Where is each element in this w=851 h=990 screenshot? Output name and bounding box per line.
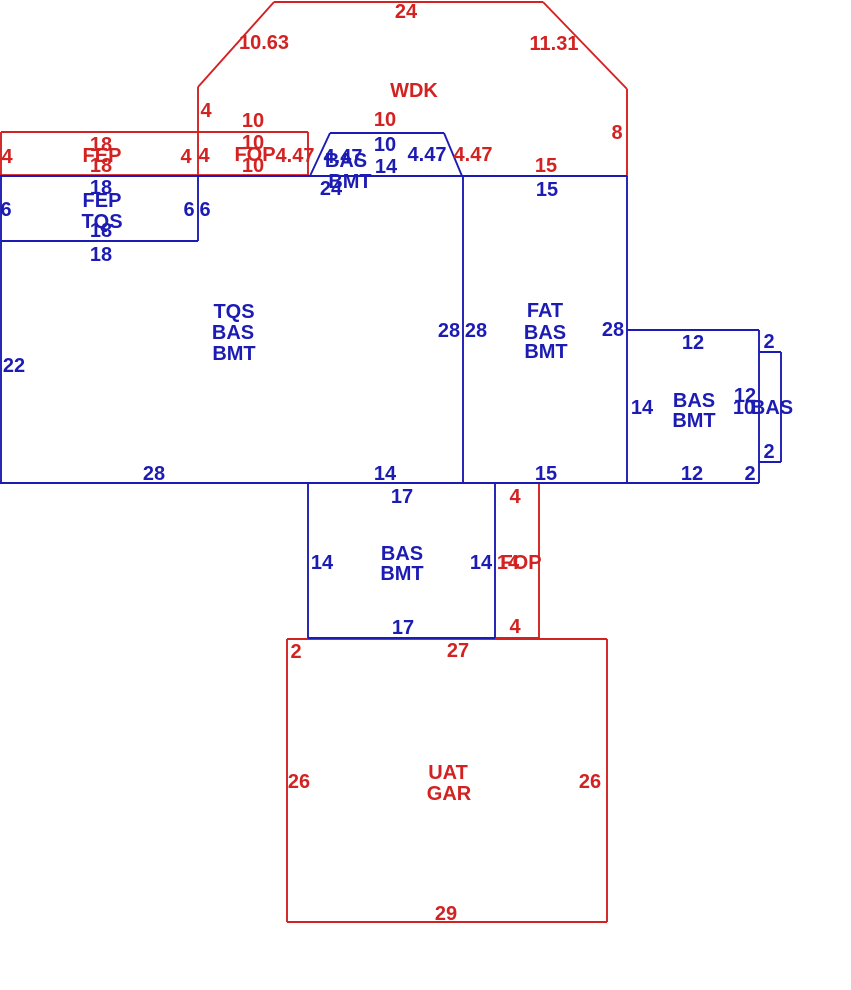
svg-text:4.47: 4.47 [408,144,447,166]
svg-text:BMT: BMT [380,563,423,585]
blue lower BAS BMT box left edge 14 [307,483,309,638]
blue BAS BMT trapezoid right slope 4.47 [444,133,462,176]
svg-text:4: 4 [198,145,210,167]
svg-text:10: 10 [242,110,264,132]
blue small BAS box right edge 10 [780,352,782,462]
svg-text:FEP: FEP [83,190,122,212]
blue main bottom line y483 [0,482,759,484]
svg-text:10.63: 10.63 [239,32,289,54]
svg-text:6: 6 [0,199,11,221]
svg-text:2: 2 [744,463,755,485]
svg-text:28: 28 [438,320,460,342]
svg-text:GAR: GAR [427,783,472,805]
svg-text:17: 17 [391,486,413,508]
svg-text:UAT: UAT [428,762,468,784]
svg-text:BMT: BMT [672,410,715,432]
svg-text:18: 18 [90,155,112,177]
blue lower BAS BMT box bottom edge 17 [308,637,495,639]
blue notch vertical 6 [197,176,199,241]
svg-text:4: 4 [180,146,192,168]
svg-text:26: 26 [288,771,310,793]
svg-text:15: 15 [536,179,558,201]
svg-text:FAT: FAT [527,300,563,322]
red WDK deck right slope 11.31 [543,2,627,89]
svg-text:14: 14 [375,156,398,178]
svg-text:4: 4 [509,616,521,638]
svg-text:14: 14 [631,397,654,419]
red WDK deck top edge 24 [274,1,543,3]
blue BAS BMT trapezoid left slope 4.47 [310,133,330,176]
svg-text:WDK: WDK [390,80,438,102]
svg-text:10: 10 [374,134,396,156]
svg-text:4: 4 [200,100,212,122]
svg-text:BMT: BMT [212,343,255,365]
red FEP left edge [0,132,2,175]
svg-text:4: 4 [1,146,13,168]
svg-text:2: 2 [763,441,774,463]
svg-text:BAS: BAS [381,543,423,565]
svg-text:BAS: BAS [673,390,715,412]
red lower FOP strip bottom edge [495,637,539,639]
svg-text:BAS: BAS [751,397,793,419]
svg-text:4: 4 [509,486,521,508]
blue BAS BMT trapezoid top edge 10 [330,132,444,134]
svg-text:15: 15 [535,155,557,177]
svg-text:24: 24 [320,178,343,200]
svg-text:15: 15 [535,463,557,485]
svg-text:8: 8 [611,122,622,144]
svg-text:14: 14 [311,552,334,574]
blue small BAS box top edge 2 [759,351,781,353]
svg-text:BAS: BAS [325,150,367,172]
svg-text:10: 10 [242,155,264,177]
svg-text:12: 12 [681,463,703,485]
red UAT GAR right edge 26 [606,639,608,922]
svg-text:2: 2 [763,331,774,353]
red WDK right vertical 8 [626,89,628,176]
blue TQS/FAT divider 28 [462,176,464,483]
red FOP right edge [307,132,309,175]
svg-text:6: 6 [199,199,210,221]
svg-text:14: 14 [374,463,397,485]
red lower FOP strip right edge [538,483,540,639]
svg-text:28: 28 [602,319,624,341]
red FEP and FOP top edge [1,131,308,133]
svg-text:4.47: 4.47 [276,145,315,167]
svg-text:27: 27 [447,640,469,662]
red WDK deck left slope 10.63 [198,2,274,87]
blue left boundary x1 (FEP/TQS + TQS area left) [0,176,2,483]
red UAT GAR left edge [286,639,288,922]
blue BAS BMT 12x14 box top edge [627,329,759,331]
svg-text:BAS: BAS [212,322,254,344]
svg-text:2: 2 [290,641,301,663]
svg-text:24: 24 [395,1,418,23]
blue FEP/TQS bottom edge 18 [1,240,198,242]
red UAT GAR bottom edge 29 [287,921,607,923]
svg-text:6: 6 [183,199,194,221]
red UAT GAR top edge [287,638,607,640]
blue FAT right edge 28 [626,176,628,483]
svg-text:29: 29 [435,903,457,925]
svg-text:4.47: 4.47 [454,144,493,166]
blue lower BAS BMT box right edge 14 [494,483,496,638]
svg-text:BMT: BMT [524,341,567,363]
blue small BAS box bottom edge 2 [759,461,781,463]
blue BAS BMT 12x14 box right edge [758,330,760,483]
svg-text:14: 14 [470,552,493,574]
red WDK left vertical / FEP-FOP divider [197,87,199,175]
svg-text:18: 18 [90,244,112,266]
svg-text:26: 26 [579,771,601,793]
svg-text:18: 18 [90,220,112,242]
svg-text:TQS: TQS [213,301,254,323]
svg-text:28: 28 [143,463,165,485]
svg-text:28: 28 [465,320,487,342]
blue long horizontal at y176 (FEP/TQS top, 24 edge, FAT top) [0,175,627,177]
svg-text:10: 10 [374,109,396,131]
svg-text:22: 22 [3,355,25,377]
red FEP and FOP bottom edge (red) [0,174,308,176]
svg-text:11.31: 11.31 [530,33,579,55]
svg-text:17: 17 [392,617,414,639]
svg-text:FOP: FOP [500,552,541,574]
svg-text:12: 12 [682,332,704,354]
